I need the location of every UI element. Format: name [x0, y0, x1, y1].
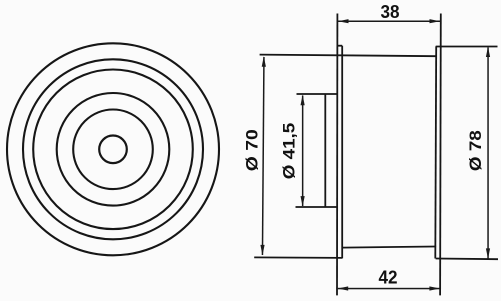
- dimension line Ø70: [262, 57, 265, 255]
- front view: roller rim circle: [23, 59, 203, 239]
- arrow left 42: [338, 286, 349, 290]
- front view: bore circle: [99, 136, 127, 164]
- arrow down Ø41,5: [301, 196, 305, 207]
- side view: left flange left face with extension lines: [336, 14, 338, 296]
- side view: right flange right face with extension lines: [439, 14, 442, 296]
- dimension line Ø78: [487, 48, 489, 259]
- svg-text:38: 38: [381, 2, 400, 22]
- dimension line Ø41,5: [302, 96, 304, 207]
- dimension Ø78: [466, 47, 490, 259]
- front view: roller surface circle: [33, 70, 193, 230]
- svg-text:Ø 70: Ø 70: [242, 129, 261, 171]
- front view: flange outer circle: [7, 43, 219, 255]
- dimension line 38: [338, 21, 440, 23]
- side view: flange bottom edge with extension: [254, 256, 342, 259]
- side view: hub inner face: [324, 94, 326, 207]
- side view: hub bottom step: [296, 206, 338, 208]
- arrow up Ø41,5: [301, 95, 305, 106]
- arrow up Ø78: [486, 47, 490, 58]
- arrow left 38: [338, 19, 349, 23]
- side view: right flange top edge with extension: [436, 46, 498, 48]
- front view: hub circle: [73, 110, 153, 190]
- dimension Ø70: [242, 56, 266, 255]
- arrow right 38: [430, 19, 441, 23]
- front view: bearing seat circle: [57, 93, 170, 206]
- dimension line 42: [338, 288, 440, 290]
- arrow down Ø70: [260, 245, 264, 256]
- side view: right flange left face: [434, 46, 437, 258]
- svg-text:42: 42: [379, 268, 398, 288]
- side view: left flange top cap: [337, 45, 342, 47]
- side view: roller top edge: [260, 55, 437, 57]
- svg-text:Ø 41,5: Ø 41,5: [279, 123, 298, 180]
- arrow down Ø78: [486, 248, 490, 259]
- dimension Ø41,5: [279, 95, 304, 207]
- side view: left flange right face: [341, 46, 343, 259]
- side view: middle section bottom edge: [342, 247, 436, 248]
- side view: hub top step: [297, 93, 338, 95]
- side view: right flange bottom edge with extension: [436, 258, 498, 261]
- arrow up Ø70: [262, 56, 266, 67]
- dimension 42: [338, 268, 440, 291]
- dimension 38: [338, 2, 440, 23]
- arrow right 42: [429, 286, 440, 290]
- svg-text:Ø 78: Ø 78: [466, 130, 485, 171]
